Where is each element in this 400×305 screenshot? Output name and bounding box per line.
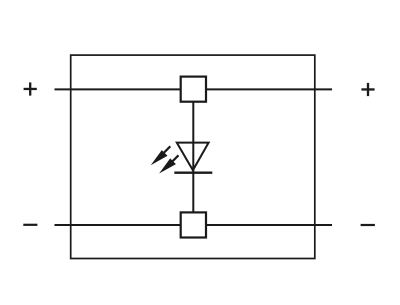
LED emission arrow 1 (upper) (151, 146, 171, 165)
wire L+ (top conductor) (55, 88, 333, 90)
node + label right (361, 83, 374, 96)
clamp terminal bottom (square) (181, 212, 206, 237)
node - label left (23, 224, 37, 226)
node - label right (361, 224, 375, 226)
LED emission arrow 2 (lower) (159, 155, 178, 173)
clamp terminal top (square) (181, 77, 206, 102)
LED D1 triangle (anode) (177, 143, 209, 171)
node + label left (24, 82, 37, 95)
LED D1 cathode bar (174, 172, 212, 174)
terminal block body outline (71, 55, 315, 258)
wire vertical branch link (192, 102, 194, 214)
wire L- (bottom conductor) (55, 224, 333, 226)
